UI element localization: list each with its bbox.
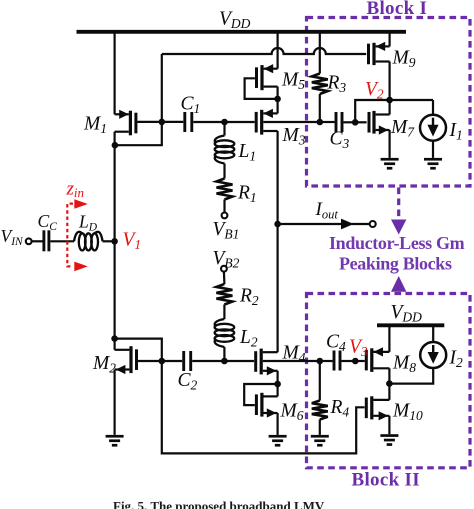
transistor M4 [260, 349, 263, 375]
inductor LD [74, 232, 82, 242]
M3 gate wire right [263, 121, 320, 123]
wire VDD2 to M8 [388, 325, 390, 352]
svg-text:C1: C1 [181, 94, 201, 117]
wire C3 left [320, 121, 335, 123]
svg-text:M6: M6 [280, 401, 304, 424]
ground under M10 [380, 434, 398, 437]
ground under M6 [269, 435, 287, 438]
wire CC to LD [50, 240, 74, 242]
ground under R4 [311, 435, 329, 438]
wire M2 drain [113, 339, 115, 350]
wire M3 drain up [277, 99, 279, 114]
Block I dashed border [307, 18, 471, 187]
VIN input terminal [26, 238, 32, 244]
wire C1 to M3 gate [193, 121, 254, 123]
wire VDD2 to I2 [432, 325, 434, 342]
inductor L1 [215, 136, 225, 144]
wire L2 to node [223, 347, 225, 361]
svg-text:V2: V2 [365, 79, 384, 102]
svg-text:Block I: Block I [367, 0, 428, 19]
wire VDD to M5 [277, 32, 279, 69]
wire gate node up [161, 54, 163, 122]
svg-text:Fig. 5. The proposed broadban: Fig. 5. The proposed broadband LMV [113, 499, 325, 509]
wire VDD to M9 source [389, 32, 391, 47]
wire C2 right [192, 360, 224, 362]
capacitor CC [42, 230, 45, 251]
transistor M2 [129, 346, 132, 373]
wire C4 right [342, 360, 356, 362]
ground under I1 [424, 158, 442, 161]
wire M9 drain to V2 [389, 62, 391, 101]
M5 gate loop [245, 78, 278, 99]
svg-text:M5: M5 [281, 70, 305, 93]
svg-text:VDD: VDD [219, 9, 251, 32]
Block II dashed border [307, 294, 471, 468]
wire M2 source to ground [113, 370, 115, 435]
node R3/C3 [317, 119, 324, 126]
svg-text:VDD: VDD [391, 302, 423, 325]
M8 gate lead [355, 360, 365, 362]
resistor R2 [216, 284, 232, 305]
svg-text:M10: M10 [392, 401, 423, 424]
svg-text:C4: C4 [326, 332, 346, 355]
node C2/L2/M4 [221, 358, 228, 365]
transistor M3 [260, 110, 263, 135]
wire VDD to M1 source [113, 32, 115, 115]
up arrow to Block II [391, 276, 406, 292]
M1 gate lead [137, 121, 161, 123]
svg-text:zin: zin [66, 179, 85, 201]
Iout wire [278, 223, 370, 225]
wire M7 drain up [389, 100, 391, 115]
capacitor C1 [183, 112, 186, 132]
transistor M9 [372, 43, 375, 65]
V2 feedback loop [355, 100, 433, 122]
wire M4 drain down [277, 371, 279, 384]
node M8 drain [386, 380, 393, 387]
node M2 gate/C2 [159, 358, 166, 365]
inductor L2 [215, 319, 225, 327]
svg-text:Block II: Block II [352, 470, 420, 491]
wire I1 to ground [432, 141, 434, 158]
node V3 [352, 358, 359, 365]
wire V2 to I1 [432, 100, 434, 115]
node Iout tap [274, 221, 281, 228]
Iout arrowhead [341, 219, 354, 230]
svg-text:C3: C3 [330, 129, 350, 152]
svg-text:LD: LD [78, 212, 98, 234]
resistor R4 [312, 401, 328, 420]
transistor M6 [260, 393, 263, 417]
M1 gate-drain tie wire [115, 122, 162, 145]
wire to L1 [223, 122, 225, 136]
wire M8 drain to M10 [388, 384, 390, 400]
svg-text:I1: I1 [449, 120, 463, 143]
node C3/M7 gate [352, 119, 359, 126]
zin dashed line [67, 204, 73, 267]
node M5/M3 [274, 96, 281, 103]
svg-text:VB1: VB1 [213, 219, 240, 242]
node V1 [111, 238, 118, 245]
resistor R1 [217, 179, 233, 200]
wire R4 down [319, 361, 321, 401]
node R4/C4 [317, 358, 324, 365]
wire LD to V1 [103, 240, 115, 242]
wire R3 to gate node [319, 94, 321, 122]
svg-text:M8: M8 [392, 353, 416, 376]
transistor M8 [370, 348, 373, 372]
svg-text:R4: R4 [330, 397, 350, 420]
wire VIN to CC [32, 240, 43, 242]
svg-text:Inductor-Less Gm: Inductor-Less Gm [329, 233, 465, 253]
wire C2 left [162, 360, 182, 362]
node M4/M6 [274, 381, 281, 388]
wire I2 return [389, 368, 433, 384]
svg-text:M2: M2 [92, 353, 116, 376]
svg-text:R3: R3 [327, 73, 347, 96]
wire M1 drain down [113, 132, 115, 146]
Iout terminal [370, 221, 376, 227]
transistor M5 [260, 65, 263, 90]
wire VB2 to R2 [223, 272, 226, 284]
node M1 drain [112, 142, 119, 149]
wire R4 to ground [319, 420, 321, 435]
VDD power rail [77, 30, 407, 34]
wire C3 right [344, 121, 356, 123]
svg-text:C2: C2 [178, 370, 198, 393]
wire M7 source to ground [389, 130, 391, 158]
svg-text:V3: V3 [349, 337, 368, 360]
wire VDD to R3 [319, 32, 321, 74]
svg-text:V1: V1 [123, 230, 142, 253]
arrow stem from Block I [397, 188, 400, 219]
svg-text:M9: M9 [392, 48, 416, 71]
transistor M1 [129, 111, 132, 136]
capacitor C3 [335, 112, 338, 132]
capacitor C4 [333, 351, 336, 371]
down arrow to text [391, 220, 406, 235]
svg-text:M7: M7 [390, 117, 415, 140]
wire M5 drain [277, 87, 279, 99]
wire to V1 node [113, 145, 115, 338]
wire L1 to R1 [223, 164, 225, 179]
resistor R3 [312, 74, 328, 95]
ground under M2 [106, 435, 124, 438]
node M1 gate/C1 [159, 119, 166, 126]
long wire to M9 gate with crossover hops [162, 48, 366, 54]
wire M6 source to ground [277, 413, 279, 435]
VB2 terminal [221, 266, 227, 272]
wire M10 source to ground [388, 416, 390, 434]
svg-text:Iout: Iout [315, 199, 339, 222]
node L1 tap [221, 119, 228, 126]
svg-text:I2: I2 [449, 348, 464, 371]
wire R1 to VB1 [223, 200, 225, 213]
svg-text:R1: R1 [237, 183, 257, 206]
node V1/M2 [111, 335, 118, 342]
svg-text:R2: R2 [239, 286, 259, 309]
svg-text:M3: M3 [282, 125, 306, 148]
zin top arrow [74, 199, 88, 209]
node V2 [386, 97, 393, 104]
transistor M7 [372, 111, 375, 134]
svg-text:M1: M1 [83, 114, 107, 137]
current source I1 [420, 115, 446, 141]
current source I2 [420, 342, 446, 368]
M6 gate loop [244, 384, 277, 405]
wire C4 left [320, 360, 333, 362]
VB1 terminal [222, 213, 228, 219]
wire M6 top [277, 384, 279, 396]
M7 gate lead [355, 121, 366, 123]
M2 drain-gate tie [115, 339, 162, 361]
zin bottom arrow [74, 262, 88, 272]
M2 gate lead [138, 360, 162, 362]
transistor M10 [370, 396, 373, 419]
M4 gate wire left [224, 360, 254, 362]
svg-text:L1: L1 [238, 141, 257, 164]
VDD rail Block II [377, 323, 444, 327]
svg-text:L2: L2 [239, 327, 258, 350]
wire R2 to L2 [223, 305, 225, 320]
svg-text:VIN: VIN [1, 226, 25, 248]
capacitor C2 [182, 351, 185, 371]
svg-text:Peaking Blocks: Peaking Blocks [339, 253, 452, 273]
ground under M7 [381, 158, 399, 161]
wire M2 gate to M10 gate [162, 361, 365, 453]
wire C1 left [162, 121, 184, 123]
svg-text:CC: CC [38, 211, 58, 233]
wire M3 source down [277, 131, 279, 352]
M4 gate wire right [263, 360, 320, 362]
wire M8 drain down [388, 368, 390, 383]
